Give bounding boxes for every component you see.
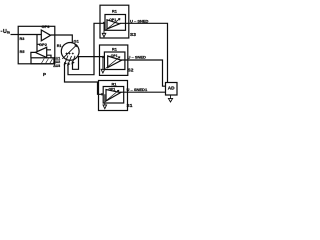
comparator S1 outer box [99,81,128,111]
svg-text:OP3: OP3 [42,24,51,29]
transducer pin 3 [64,56,68,65]
comparator S1 op-amp [106,90,121,102]
wire R4 to OP2 input [47,50,51,58]
comparator S2 op-amp [108,56,122,68]
op-amp OP3 [41,30,50,41]
summing block output arrow [168,95,172,102]
op-amp OP2 (facing left) [35,47,46,57]
wire OP3 output to transducer [51,35,73,44]
svg-text:Uin: Uin [3,29,11,35]
svg-text:P: P [43,72,46,77]
comparator S2 ground arrow [101,58,105,73]
comparator S3 outer box [100,5,129,38]
svg-text:G1: G1 [74,39,80,44]
svg-text:R1: R1 [112,48,117,52]
wire W2 pin2 to comparator S3 input [68,23,105,74]
output wire comparator S2 [121,60,166,86]
svg-text:R1: R1 [57,44,62,48]
wire OP2 output left [31,52,35,57]
comparator S1 diagonal stroke [105,90,119,102]
svg-text:ΔU3: ΔU3 [53,64,60,68]
transducer pin 2 [68,56,72,65]
comparator S2 outer box [100,45,128,75]
svg-text:R3: R3 [20,37,25,41]
svg-text:R1: R1 [112,9,117,13]
comparator S3 input junction dot [103,22,105,24]
comparator S3 op-amp [107,20,120,29]
wire OP3 inverting input [18,34,41,36]
svg-text:U – SNED: U – SNED [128,55,147,60]
svg-text:AD: AD [168,85,175,90]
comparator S2 inner box [104,52,125,70]
comparator S1 input junction dot [101,93,103,95]
wire feedback node to OP2 [37,35,41,52]
comparator S1 ground arrow [103,94,107,108]
comparator S3 diagonal stroke [106,19,120,30]
resistor R4 hatched box [31,58,54,64]
transducer G1 circle [61,43,79,61]
summing block AD box [166,83,178,96]
wire W1 pin1 to comparator S2 input [73,57,105,70]
svg-text:S1: S1 [127,103,133,109]
svg-text:OP2: OP2 [39,42,48,47]
svg-text:U – SNED1: U – SNED1 [127,87,148,92]
svg-text:U – SNED: U – SNED [130,19,149,24]
svg-text:S2: S2 [128,68,134,74]
transducer wiper arrow [62,45,76,59]
comparator S1 inner box [103,87,124,104]
amplifier block outer box [18,26,55,64]
comparator S3 ground arrow [102,24,106,38]
output wire comparator S3 [120,23,168,82]
transducer internal plus marks [66,53,74,55]
transducer pin 1 [72,56,75,64]
comparator S3 inner box [105,15,126,31]
wire W3 pin3 to comparator S1 input [65,64,104,95]
wire Uin to amplifier block [11,34,19,36]
svg-text:R5: R5 [20,50,25,54]
output wire comparator S1 [120,91,166,93]
svg-text:S3: S3 [130,32,136,38]
comparator S2 diagonal stroke [106,57,120,69]
comparator S2 input junction dot [102,56,104,58]
